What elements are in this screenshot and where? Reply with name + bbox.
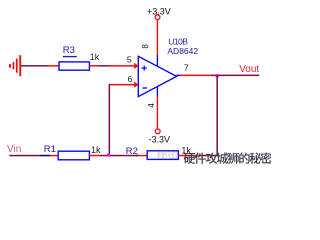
wire segment under R1 label [40,155,50,157]
watermark 硬件攻城狮的秘密 [184,152,272,164]
pin 6 arrow [134,82,139,88]
pin 7 output stub [177,75,181,77]
pin 5 arrow [134,63,139,69]
svg-text:R3: R3 [63,45,75,56]
svg-text:6: 6 [128,74,133,84]
wire R1 left lead [50,155,59,157]
wire output red [181,75,211,77]
wire R3 to pin5 [89,65,99,67]
+3.3V power terminal circle [155,15,160,20]
plus marker [142,66,147,71]
resistor R3 [59,62,89,70]
svg-text:8: 8 [141,44,150,49]
svg-text:4: 4 [147,103,156,108]
watermark char 硬 [184,153,196,164]
-3.3V power terminal circle [155,129,160,134]
watermark char 的 [239,152,249,163]
svg-text:5: 5 [127,54,132,64]
wire output vertical to R2 [216,75,218,156]
wire pin4 to -3.3V [157,97,158,129]
svg-text:-3.3V: -3.3V [149,134,171,144]
junction node A [107,154,110,157]
wire pin6 horizontal [109,84,135,86]
watermark char 狮 [228,153,239,164]
wire R2 to output node [179,155,210,157]
svg-text:1k: 1k [90,52,100,62]
watermark char 攻 [206,152,218,163]
svg-text:1k: 1k [91,145,101,155]
watermark char 件 [195,153,206,164]
pin 4 stub [157,87,158,97]
op-amp U1 triangle [138,56,176,96]
watermark faint tile [157,149,178,160]
svg-text:7: 7 [184,62,189,72]
wire node A to R2 [110,155,136,157]
resistor R1 [58,151,89,160]
resistor R2 [147,151,178,160]
ground [9,55,21,76]
svg-text:R1: R1 [44,144,56,155]
svg-text:+3.3V: +3.3V [147,6,171,16]
watermark char 密 [168,149,178,160]
wire output maroon to Vout [210,75,259,77]
svg-text:AD8642: AD8642 [167,46,198,56]
wire feedback vertical [109,84,111,156]
pin 8 stub [157,55,158,66]
wire R1 to node A [89,155,99,157]
svg-text:Vout: Vout [239,64,259,75]
wire gnd to R3 [21,65,48,67]
watermark char 秘 [157,149,168,159]
wire Vin [9,155,40,157]
junction output node [216,74,219,77]
wire +3.3V to pin8 [157,20,158,56]
watermark char 秘 [250,152,261,163]
minus marker [143,87,148,89]
svg-text:Vin: Vin [7,144,21,155]
watermark char 密 [261,152,272,163]
wire R3 left lead [48,65,60,67]
watermark char 城 [217,152,228,163]
